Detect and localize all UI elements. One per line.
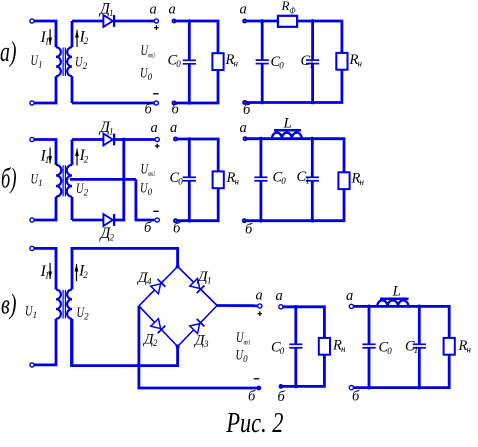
svg-text:1: 1 <box>207 276 212 286</box>
svg-text:б: б <box>278 389 286 405</box>
svg-text:н: н <box>235 177 240 187</box>
svg-text:вт1: вт1 <box>148 169 155 178</box>
svg-text:a: a <box>151 120 158 136</box>
svg-text:1: 1 <box>45 155 50 165</box>
svg-text:б): б) <box>1 164 17 195</box>
svg-text:0: 0 <box>281 176 286 186</box>
svg-text:н: н <box>360 177 365 187</box>
svg-text:1: 1 <box>309 60 314 70</box>
svg-text:н: н <box>358 59 363 69</box>
svg-text:a: a <box>169 2 176 18</box>
svg-text:0: 0 <box>148 187 153 197</box>
svg-text:3: 3 <box>203 339 209 349</box>
svg-text:1: 1 <box>109 127 114 137</box>
svg-text:б: б <box>248 389 256 405</box>
svg-text:2: 2 <box>84 188 89 198</box>
svg-text:a: a <box>240 2 247 18</box>
svg-text:1: 1 <box>38 178 43 188</box>
svg-text:1: 1 <box>414 345 419 355</box>
svg-text:L: L <box>392 284 401 300</box>
svg-text:вт1: вт1 <box>244 338 251 347</box>
svg-text:Рис. 2: Рис. 2 <box>226 407 284 439</box>
svg-text:0: 0 <box>243 354 248 364</box>
svg-text:2: 2 <box>153 338 158 348</box>
svg-text:б: б <box>173 221 181 237</box>
svg-text:2: 2 <box>84 312 89 322</box>
svg-text:2: 2 <box>84 36 89 46</box>
svg-text:4: 4 <box>147 277 152 287</box>
svg-text:б: б <box>352 389 360 405</box>
svg-text:0: 0 <box>178 176 183 186</box>
svg-text:а): а) <box>0 37 17 68</box>
svg-text:2: 2 <box>83 270 88 280</box>
svg-text:a: a <box>240 120 247 136</box>
svg-text:0: 0 <box>148 72 153 82</box>
svg-text:б: б <box>172 102 180 118</box>
svg-text:н: н <box>341 344 346 354</box>
svg-text:R: R <box>281 0 290 13</box>
svg-text:2: 2 <box>83 61 88 71</box>
svg-text:1: 1 <box>109 8 114 18</box>
svg-text:a: a <box>150 2 157 18</box>
svg-text:1: 1 <box>45 271 50 281</box>
svg-text:н: н <box>234 59 239 69</box>
svg-text:a: a <box>346 288 353 304</box>
svg-text:0: 0 <box>280 346 285 356</box>
svg-text:в): в) <box>1 290 17 321</box>
svg-text:0: 0 <box>387 346 392 356</box>
svg-text:L: L <box>283 116 292 132</box>
svg-text:2: 2 <box>110 233 115 243</box>
svg-text:б: б <box>245 222 253 238</box>
svg-text:0: 0 <box>176 59 181 69</box>
svg-text:ф: ф <box>290 5 296 15</box>
svg-text:a: a <box>276 288 283 304</box>
svg-text:1: 1 <box>38 60 43 70</box>
svg-text:1: 1 <box>33 310 38 320</box>
svg-text:2: 2 <box>84 155 89 165</box>
svg-text:б: б <box>145 102 153 118</box>
svg-text:1: 1 <box>45 37 50 47</box>
svg-text:a: a <box>256 288 263 304</box>
svg-text:1: 1 <box>305 176 310 186</box>
svg-text:a: a <box>170 120 177 136</box>
svg-text:н: н <box>467 345 472 355</box>
svg-text:б: б <box>243 102 251 118</box>
svg-text:0: 0 <box>279 61 284 71</box>
svg-text:б: б <box>144 220 152 236</box>
svg-text:вт1: вт1 <box>148 51 155 60</box>
